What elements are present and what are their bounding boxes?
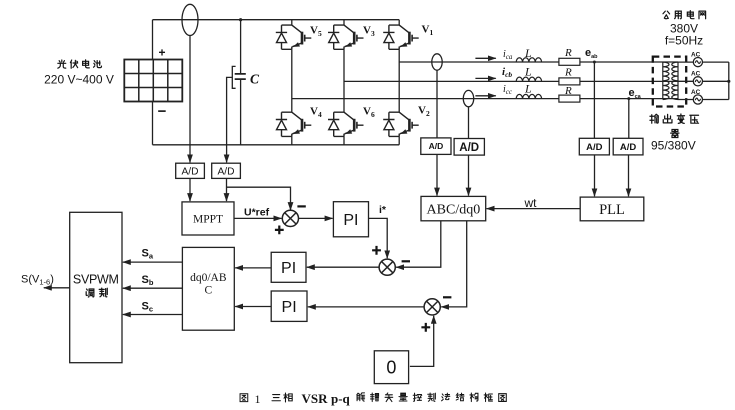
block PLL bbox=[580, 197, 644, 221]
AC source 3 bbox=[693, 95, 702, 104]
block ABC/dq0 bbox=[421, 196, 486, 220]
block A/D a (i_ca) bbox=[421, 138, 451, 155]
svg-text:L: L bbox=[524, 46, 532, 60]
block PI 2 bbox=[271, 252, 306, 282]
inductor L3 bbox=[516, 94, 541, 98]
current direction arrow bbox=[475, 95, 495, 97]
label minus at node B bbox=[402, 260, 410, 262]
label 输出变压 (output transformer) bbox=[650, 114, 658, 123]
caption 图1 三相 VSR p-q 解耦矢量控制法结构框图 bbox=[240, 394, 248, 402]
wire PI 2 to dq0/ABC bbox=[235, 267, 271, 269]
block PI 1 bbox=[333, 202, 368, 237]
svg-text:AC: AC bbox=[691, 71, 701, 78]
svg-text:U*ref: U*ref bbox=[244, 207, 270, 219]
svg-text:L: L bbox=[524, 82, 532, 96]
capacitor sense bracket bbox=[232, 66, 235, 88]
resistor R1 bbox=[559, 58, 580, 65]
wire Sa dq0/ABC to SVPWM bbox=[123, 261, 183, 263]
current direction arrow bbox=[475, 57, 495, 59]
svg-text:Sb: Sb bbox=[142, 274, 154, 287]
wire MPPT to node A bbox=[234, 217, 282, 219]
summing junction i_q (node C) bbox=[424, 299, 440, 315]
block A/D b (i_cc) bbox=[454, 139, 484, 156]
svg-text:ABC/dq0: ABC/dq0 bbox=[427, 203, 481, 218]
wire phase c line (bottom) bbox=[292, 98, 678, 100]
wire capacitor voltage sense to A/D bbox=[227, 77, 233, 162]
block PI 3 bbox=[271, 291, 307, 321]
transistor V6 (IGBT with anti-parallel diode) bbox=[328, 112, 364, 136]
block dq0/ABC bbox=[182, 247, 234, 330]
current direction arrow bbox=[475, 77, 495, 79]
wire A/D b to ABC/dq0 bbox=[468, 155, 470, 196]
svg-text:R: R bbox=[564, 67, 572, 79]
svg-text:Sc: Sc bbox=[142, 301, 154, 314]
wire AC right bus bbox=[703, 62, 729, 99]
svg-text:eca: eca bbox=[629, 87, 642, 100]
svg-text:220 V~400 V: 220 V~400 V bbox=[44, 73, 114, 87]
wire bottom DC bus bbox=[153, 144, 400, 146]
junction dot DC bus / capacitor bbox=[239, 18, 242, 21]
voltage sensor ellipse on DC bus bbox=[182, 4, 198, 35]
svg-text:S(V1-6): S(V1-6) bbox=[21, 274, 54, 287]
wire bridge leg at x=291.8 bbox=[291, 20, 293, 145]
wire capacitor top lead bbox=[240, 20, 242, 74]
wire bridge leg at x=399.2 bbox=[398, 20, 400, 145]
svg-text:L: L bbox=[524, 64, 532, 78]
svg-text:A/D: A/D bbox=[620, 142, 637, 153]
svg-text:AC: AC bbox=[691, 89, 701, 96]
svg-text:PI: PI bbox=[282, 299, 297, 316]
svg-text:+: + bbox=[158, 46, 165, 60]
svg-text:−: − bbox=[158, 103, 167, 120]
svg-text:PLL: PLL bbox=[599, 202, 625, 218]
svg-text:f=50Hz: f=50Hz bbox=[665, 34, 703, 48]
svg-text:V5: V5 bbox=[310, 25, 322, 39]
wire ABC/dq0 id output to node B bbox=[396, 221, 441, 267]
svg-text:A/D: A/D bbox=[429, 141, 444, 151]
label plus at node C bbox=[421, 323, 430, 332]
PV array 光伏电池 panel symbol bbox=[124, 60, 182, 102]
summing junction u* (node A) bbox=[282, 210, 298, 226]
wire Sb dq0/ABC to SVPWM bbox=[123, 287, 183, 289]
inductor L2 bbox=[516, 77, 541, 81]
wire PLL wt output to ABC/dq0 bbox=[487, 208, 581, 210]
block A/D e (u_dc sense) bbox=[176, 163, 205, 178]
svg-text:A/D: A/D bbox=[586, 142, 603, 153]
svg-text:A/D: A/D bbox=[218, 167, 235, 178]
resistor R3 bbox=[559, 95, 580, 102]
svg-text:ica: ica bbox=[503, 49, 513, 61]
svg-text:i*: i* bbox=[379, 204, 387, 216]
capacitor C plates bbox=[235, 74, 246, 79]
transformer secondary winding bbox=[677, 62, 679, 99]
svg-text:eab: eab bbox=[585, 47, 598, 60]
label plus at node A bbox=[275, 226, 284, 235]
svg-text:A/D: A/D bbox=[182, 167, 199, 178]
svg-text:V6: V6 bbox=[363, 106, 375, 120]
svg-text:wt: wt bbox=[524, 196, 538, 210]
label 光伏电池 (PV battery) bbox=[58, 60, 66, 68]
wire node A to PI 1 bbox=[299, 217, 333, 219]
block zero reference bbox=[374, 351, 408, 384]
svg-text:icb: icb bbox=[502, 66, 512, 79]
svg-text:AC: AC bbox=[691, 52, 701, 59]
wire SVPWM gating output S(V1-6) bbox=[44, 287, 70, 289]
svg-text:MPPT: MPPT bbox=[193, 214, 223, 226]
svg-text:V2: V2 bbox=[418, 105, 430, 119]
svg-text:95/380V: 95/380V bbox=[651, 139, 696, 153]
svg-text:SVPWM: SVPWM bbox=[73, 273, 119, 287]
wire A/D d to PLL bbox=[628, 155, 630, 196]
transistor V3 (IGBT with anti-parallel diode) bbox=[328, 25, 364, 49]
label 公用电网 (public grid) bbox=[663, 11, 670, 19]
wire phase a sensor to A/D bbox=[436, 70, 438, 138]
wire PI 3 to dq0/ABC bbox=[235, 306, 271, 308]
current sensor ellipse phase a bbox=[432, 54, 442, 70]
transistor V5 (IGBT with anti-parallel diode) bbox=[276, 25, 312, 49]
label minus at node A bbox=[297, 205, 305, 207]
resistor R2 bbox=[559, 78, 580, 85]
svg-text:C: C bbox=[204, 285, 212, 297]
label 调制 (modulation) bbox=[86, 289, 94, 297]
transistor V2 (IGBT with anti-parallel diode) bbox=[383, 112, 419, 136]
svg-text:Sa: Sa bbox=[142, 248, 154, 261]
svg-text:C: C bbox=[250, 72, 260, 87]
svg-text:dq0/AB: dq0/AB bbox=[190, 272, 227, 284]
svg-text:0: 0 bbox=[386, 358, 396, 378]
junction dot AC mid line / right bus bbox=[727, 80, 730, 83]
label plus at node B bbox=[372, 246, 381, 255]
transistor V1 (IGBT with anti-parallel diode) bbox=[383, 25, 419, 49]
wire phase b line (middle) bbox=[344, 80, 678, 82]
wire left DC link (battery branch) bbox=[152, 20, 154, 145]
svg-text:V4: V4 bbox=[310, 106, 322, 120]
svg-text:R: R bbox=[564, 85, 572, 97]
wire phase c sensor to A/D bbox=[468, 107, 470, 139]
block A/D d (e_ca) bbox=[613, 138, 643, 155]
wire phase a line (top) bbox=[399, 61, 678, 63]
wire secondary to AC sources bbox=[678, 62, 693, 99]
svg-text:V1: V1 bbox=[422, 24, 434, 38]
wire capacitor bottom lead bbox=[240, 79, 242, 145]
svg-text:PI: PI bbox=[343, 212, 358, 229]
svg-text:V3: V3 bbox=[363, 25, 375, 39]
junction dot e_ab sense tap bbox=[593, 61, 596, 64]
inductor L1 bbox=[516, 58, 541, 62]
output transformer dashed boundary bbox=[653, 57, 686, 107]
wire node B to PI 2 bbox=[307, 266, 379, 268]
block A/D c (e_ab) bbox=[579, 138, 609, 155]
AC source 2 bbox=[693, 77, 702, 86]
wire e_ab sense to A/D bbox=[593, 62, 595, 138]
svg-text:A/D: A/D bbox=[459, 142, 479, 154]
wire DC voltage sense to A/D bbox=[189, 36, 191, 163]
wire node C to PI 3 bbox=[308, 306, 424, 308]
summing junction i_d (node B) bbox=[379, 259, 395, 275]
svg-text:icc: icc bbox=[503, 84, 513, 96]
svg-text:1: 1 bbox=[255, 392, 261, 406]
current sensor ellipse phase c bbox=[463, 90, 473, 106]
block MPPT bbox=[182, 202, 234, 235]
svg-text:R: R bbox=[564, 47, 572, 59]
wire top DC bus bbox=[153, 19, 400, 21]
block A/D f (u_c sense) bbox=[212, 163, 241, 178]
svg-text:PI: PI bbox=[281, 260, 296, 277]
wire PI 1 to node B (i* ref) bbox=[369, 218, 388, 258]
wire e_ca sense to A/D bbox=[628, 99, 630, 139]
label 器 bbox=[671, 129, 679, 137]
block SVPWM modulator bbox=[70, 212, 122, 362]
wire A/D f branch to summing junction bbox=[227, 187, 291, 210]
junction dot e_ca sense tap bbox=[627, 97, 630, 100]
label minus at node C bbox=[443, 296, 451, 298]
wire Sc dq0/ABC to SVPWM bbox=[123, 314, 183, 316]
transistor V4 (IGBT with anti-parallel diode) bbox=[276, 112, 312, 136]
wire A/D e to MPPT bbox=[189, 178, 191, 201]
wire bridge leg at x=344.0 bbox=[343, 20, 345, 145]
wire A/D f branch to MPPT bbox=[226, 178, 228, 201]
wire A/D c to PLL bbox=[594, 155, 596, 196]
wire zero ref to node C bbox=[410, 316, 434, 367]
wire A/D a to ABC/dq0 bbox=[436, 154, 438, 195]
wire ABC/dq0 iq output to node C bbox=[441, 221, 467, 307]
transformer primary winding bbox=[662, 62, 664, 99]
svg-text:VSR: VSR bbox=[302, 391, 329, 406]
svg-text:p-q: p-q bbox=[331, 391, 351, 406]
AC source 1 bbox=[693, 58, 702, 67]
